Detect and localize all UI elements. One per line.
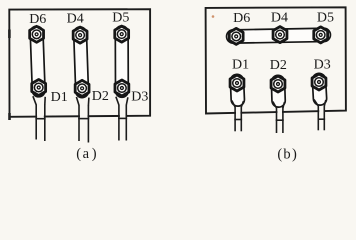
svg-text:(a): (a) (76, 146, 97, 162)
label D4 (b) (271, 11, 288, 26)
label D3 (b) (314, 58, 331, 73)
terminal D1 (b) (230, 75, 244, 91)
terminal D3 (a) (115, 80, 129, 96)
svg-text:D2: D2 (92, 89, 109, 104)
terminal pad D3 (b) (319, 80, 320, 99)
caption (a) (76, 146, 97, 162)
label D1 (b) (232, 58, 249, 73)
wire lead from D3 (a) (116, 97, 128, 141)
wire lead from D3 (b) (314, 100, 326, 131)
terminal box (b) outline (206, 7, 346, 113)
label D5 (b) (317, 10, 334, 25)
label D5 (a) (112, 10, 129, 25)
terminal box (a) outline (9, 9, 150, 117)
svg-text:D6: D6 (29, 12, 46, 27)
label D1 (a) (51, 90, 68, 105)
svg-text:D3: D3 (131, 89, 148, 104)
wire lead from D1 (b) (232, 101, 244, 132)
svg-text:D1: D1 (232, 58, 249, 73)
label D2 (a) (92, 89, 109, 104)
label D6 (a) (29, 12, 46, 27)
label D3 (a) (131, 89, 148, 104)
link strip D4-D2 (a) (80, 33, 82, 91)
terminal D3 (b) (312, 74, 326, 90)
svg-text:D1: D1 (51, 90, 68, 105)
terminal D2 (b) (271, 76, 285, 92)
terminal D6 (a) (30, 26, 44, 42)
svg-text:D5: D5 (317, 10, 334, 25)
terminal D5 (b) (314, 27, 328, 43)
svg-text:D6: D6 (233, 11, 250, 26)
link bar D6-D4-D5 (b) (233, 35, 324, 37)
terminal D2 (a) (75, 80, 89, 96)
label D2 (b) (270, 58, 287, 73)
ink blotch on left edge lower (8, 113, 11, 120)
terminal D4 (a) (73, 27, 87, 43)
svg-text:D4: D4 (67, 11, 84, 26)
svg-text:D4: D4 (271, 11, 288, 26)
wire lead from D2 (a) (76, 97, 89, 143)
wire lead from D1 (a) (33, 96, 46, 141)
terminal D4 (b) (273, 27, 287, 43)
label D4 (a) (67, 11, 84, 26)
svg-text:D3: D3 (314, 58, 331, 73)
caption (b) (277, 146, 297, 162)
ink blotch on left edge (8, 30, 11, 39)
link strip D6-D1 (a) (37, 33, 39, 91)
terminal D6 (b) (229, 28, 243, 44)
terminal D5 (a) (115, 26, 129, 42)
svg-text:(b): (b) (277, 146, 297, 162)
terminal D1 (a) (32, 80, 46, 96)
link strip D5-D3 (a) (114, 32, 129, 91)
label D6 (b) (233, 11, 250, 26)
terminal pad D2 (b) (271, 82, 287, 101)
svg-text:D2: D2 (270, 58, 287, 73)
wire lead from D2 (b) (273, 102, 285, 134)
scan speck (212, 15, 215, 18)
terminal pad D1 (b) (230, 81, 246, 100)
svg-text:D5: D5 (112, 10, 129, 25)
